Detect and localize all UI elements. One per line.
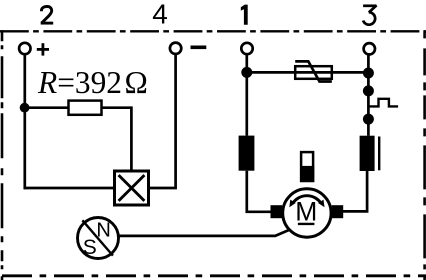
junction dot 3a	[363, 68, 374, 79]
motor M underline	[298, 223, 315, 225]
plus sign at terminal 2	[37, 43, 49, 55]
thermal circuit breaker body	[295, 66, 332, 79]
wire terminal 4 down to lamp right	[149, 54, 176, 188]
terminal label 2	[41, 6, 54, 23]
junction dot 3c	[363, 114, 374, 125]
wire junction to resistor	[25, 106, 69, 109]
svg-text:M: M	[295, 197, 317, 227]
wire right choke to motor brush	[343, 171, 367, 211]
boundary frame right (dash-dot)	[423, 30, 426, 280]
wire magnet to motor	[118, 230, 289, 236]
terminal 1 circle	[241, 43, 252, 54]
motor oscillation arrow arc	[293, 196, 321, 204]
wire terminal 2 down	[23, 54, 26, 189]
main wire 1 to 3	[247, 71, 369, 74]
terminal label 1	[241, 5, 248, 25]
junction dot on terminal 2 wire	[20, 103, 30, 113]
resistor R body	[69, 101, 102, 115]
junction dot 3b	[363, 85, 374, 96]
terminal 2 circle	[19, 43, 30, 54]
terminal 3 circle	[364, 43, 375, 54]
svg-text:N: N	[96, 219, 110, 241]
wire resistor to corner	[102, 108, 132, 171]
motor M circle	[283, 189, 331, 237]
suppression resistor left (filled)	[239, 136, 255, 171]
svg-text:4: 4	[152, 0, 168, 30]
crossed-box element (glow plug load)	[115, 171, 149, 205]
wire terminal 1 down	[245, 54, 248, 135]
motor brush right	[332, 205, 344, 218]
magnet sensor circle	[78, 218, 119, 259]
terminal 4 circle	[170, 43, 181, 54]
junction dot terminal 1	[241, 67, 252, 78]
motor brush left	[271, 205, 283, 218]
svg-text:R=392Ω: R=392Ω	[37, 65, 148, 100]
boundary frame left (dash-dot)	[1, 30, 4, 280]
svg-text:S: S	[83, 236, 97, 259]
boundary frame top (dash-dot)	[0, 30, 426, 32]
suppression choke right (filled)	[360, 136, 375, 171]
magnet diagonal divider	[82, 220, 113, 255]
capacitor line beside choke	[378, 137, 380, 171]
minus sign at terminal 4	[191, 45, 207, 49]
terminal label 3	[363, 5, 377, 24]
wire terminal 3 down	[367, 55, 370, 136]
wire left resistor to motor brush	[247, 171, 271, 212]
arrow head right	[318, 200, 324, 208]
thermal breaker actuator stroke	[295, 61, 332, 81]
third brush element above motor	[300, 152, 314, 181]
arrow head left	[289, 200, 295, 208]
wire bottom-left to lamp left	[24, 187, 115, 190]
pulse signal symbol	[368, 99, 398, 107]
boundary frame bottom (dash-dot)	[2, 274, 426, 277]
